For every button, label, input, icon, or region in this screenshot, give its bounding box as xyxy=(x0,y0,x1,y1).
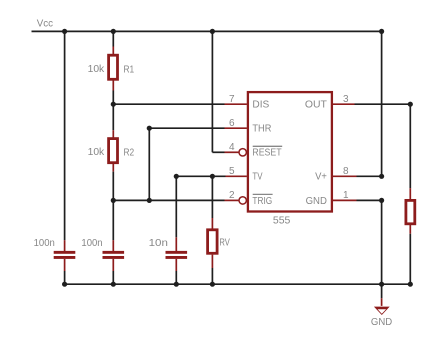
junction (381.6,176.3) node V+ xyxy=(379,174,384,179)
junction (410.3,284.2) xyxy=(408,282,413,287)
junction (212.4,284.2) xyxy=(210,282,215,287)
resistor load (unlabeled) xyxy=(406,200,415,223)
wire load resistor to ground rail xyxy=(409,234,411,284)
pin R1 top lead xyxy=(112,47,114,55)
wire Vcc to RESET vertical xyxy=(211,31,213,152)
resistor RV xyxy=(208,230,218,254)
op-amp U1 555 body xyxy=(248,92,332,211)
wire TV horizontal xyxy=(176,175,225,177)
wire GND pin to ground rail xyxy=(357,199,382,201)
wire left vertical Vcc to C1 xyxy=(64,31,66,240)
ground symbol xyxy=(374,307,390,315)
svg-text:4: 4 xyxy=(229,142,235,153)
wire TV node to C3 vertical xyxy=(175,176,177,237)
capacitor C3 10n xyxy=(166,251,188,254)
resistor R2 xyxy=(109,139,118,163)
wire THR horizontal xyxy=(149,127,224,129)
pin R1 bottom lead xyxy=(112,80,114,91)
junction (410.3,104.2) node OUT corner xyxy=(408,102,413,107)
pin C2 bottom lead xyxy=(112,259,114,271)
pin 2 inversion bubble xyxy=(239,197,246,204)
overline of RESET xyxy=(253,145,283,147)
pin 4 inversion bubble xyxy=(239,149,246,156)
pin C3 top lead xyxy=(175,237,177,251)
wire RESET horizontal xyxy=(212,151,224,153)
svg-text:10k: 10k xyxy=(88,147,106,158)
svg-text:DIS: DIS xyxy=(252,100,269,111)
junction (113.3,31.4) xyxy=(111,29,116,34)
svg-text:100n: 100n xyxy=(34,238,55,249)
wire V+ to Vcc xyxy=(357,175,382,177)
pin 4 RESET lead xyxy=(225,151,239,153)
junction (113.3,104.2) node DIS xyxy=(111,102,116,107)
svg-text:Vcc: Vcc xyxy=(37,18,53,29)
svg-text:RV: RV xyxy=(219,237,230,248)
pin C3 bottom lead xyxy=(175,259,177,271)
wire Vcc top rail xyxy=(32,30,382,32)
svg-text:10n: 10n xyxy=(149,238,168,249)
svg-text:10k: 10k xyxy=(88,64,106,75)
pin C2 top lead xyxy=(112,240,114,251)
wire TV node to RV vertical xyxy=(211,176,213,218)
wire R1 bottom to node DIS xyxy=(112,91,114,131)
svg-text:6: 6 xyxy=(229,118,235,129)
svg-text:2: 2 xyxy=(229,190,235,201)
junction (381.6,284.2) xyxy=(379,282,384,287)
wire Vcc to R1 top xyxy=(112,31,114,46)
overline of TRIG xyxy=(253,193,273,195)
wire Vcc right vertical xyxy=(381,31,383,176)
svg-text:GND: GND xyxy=(371,317,392,328)
svg-text:100n: 100n xyxy=(81,238,102,249)
wire TRIG horizontal xyxy=(113,199,224,201)
svg-text:RESET: RESET xyxy=(252,148,281,159)
pin 1 GND lead xyxy=(333,199,357,201)
wire OUT down to load resistor xyxy=(409,104,411,188)
junction (64.6,284.2) xyxy=(62,282,67,287)
junction (149.3,200.4) xyxy=(147,198,152,203)
wire OUT horizontal xyxy=(355,103,411,105)
pin R2 bottom lead xyxy=(112,163,114,172)
svg-text:V+: V+ xyxy=(315,172,327,183)
junction (381.6,31.4) xyxy=(379,29,384,34)
junction (381.6,200.4) node GND xyxy=(379,198,384,203)
junction (113.3,200.4) node TRIG xyxy=(111,198,116,203)
wire R2 bottom to TRIG node xyxy=(112,172,114,241)
resistor R1 xyxy=(109,55,118,79)
junction (212.4,31.4) xyxy=(210,29,215,34)
svg-text:TV: TV xyxy=(252,172,262,183)
pin RV bottom lead xyxy=(211,255,213,268)
svg-text:TRIG: TRIG xyxy=(252,196,272,207)
junction (176.3,176.3) node TV xyxy=(174,174,179,179)
pin C1 bottom lead xyxy=(64,259,66,271)
junction (64.6,31.4) xyxy=(62,29,67,34)
pin 3 OUT lead xyxy=(333,103,355,105)
pin load resistor top lead xyxy=(409,188,411,199)
pin 6 THR lead xyxy=(225,127,247,129)
svg-text:OUT: OUT xyxy=(305,100,327,111)
svg-text:GND: GND xyxy=(306,196,327,207)
junction (176.3,284.2) xyxy=(174,282,179,287)
pin ground symbol lead xyxy=(381,298,383,306)
junction (113.3,284.2) xyxy=(111,282,116,287)
pin C1 top lead xyxy=(64,240,66,251)
pin 2 TRIG lead xyxy=(225,199,239,201)
svg-text:THR: THR xyxy=(252,123,271,134)
wire ground symbol stub xyxy=(381,284,383,298)
svg-text:5: 5 xyxy=(229,166,235,177)
wire ground right vertical xyxy=(381,200,383,284)
capacitor C1 100n xyxy=(54,251,76,254)
wire C2 to ground rail xyxy=(112,271,114,284)
pin RV top lead xyxy=(211,218,213,229)
wire THR to TRIG vertical xyxy=(148,128,150,200)
capacitor C2 100n xyxy=(103,251,125,254)
pin R2 top lead xyxy=(112,130,114,138)
svg-text:R1: R1 xyxy=(124,64,135,75)
wire C1 to ground rail xyxy=(64,271,66,284)
pin load resistor bottom lead xyxy=(409,224,411,234)
svg-text:7: 7 xyxy=(229,94,235,105)
junction (149.3,128.2) node THR xyxy=(147,126,152,131)
wire ground bottom rail xyxy=(65,283,411,285)
svg-text:R2: R2 xyxy=(124,147,135,158)
junction (212.4,176.3) xyxy=(210,174,215,179)
wire RV to ground rail xyxy=(211,268,213,284)
wire DIS horizontal xyxy=(113,103,224,105)
pin 7 DIS lead xyxy=(225,103,247,105)
pin 8 V+ lead xyxy=(333,175,357,177)
pin 5 TV lead xyxy=(226,175,247,177)
wire C3 to ground rail xyxy=(175,271,177,284)
svg-text:555: 555 xyxy=(273,215,291,227)
